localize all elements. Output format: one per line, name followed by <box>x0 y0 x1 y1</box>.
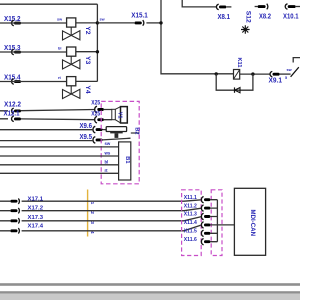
title block band <box>0 294 300 300</box>
wire B2 stub <box>131 132 139 134</box>
wire X15.4 row <box>0 80 97 82</box>
connector X17.4 <box>10 224 44 234</box>
title block line 2 <box>0 291 300 294</box>
connector X15.4 <box>4 75 21 85</box>
relay coil K11 <box>234 58 242 80</box>
diode V1 <box>235 87 241 92</box>
svg-text:X10.1: X10.1 <box>283 14 299 21</box>
wire X15.2 row <box>0 22 97 24</box>
box MDI-CAN <box>234 188 265 255</box>
svg-text:sw: sw <box>287 68 292 72</box>
connector X11.6 <box>184 237 211 245</box>
connector X9.6 <box>80 123 103 133</box>
connector X9.1 <box>269 71 283 84</box>
wire X9.6 <box>0 129 107 131</box>
connector X12.2 <box>4 101 21 113</box>
connector X25 upper <box>91 100 104 113</box>
svg-text:Y2: Y2 <box>84 26 91 35</box>
wire B1 ws <box>0 155 119 157</box>
svg-text:sw: sw <box>57 18 62 22</box>
dashed bracket X11 right <box>211 190 222 256</box>
svg-text:X11.1: X11.1 <box>184 195 197 201</box>
wire X12.1 to X25 <box>0 118 95 121</box>
dashed bracket X11 left <box>182 190 202 256</box>
connector X17.1 <box>10 196 43 204</box>
connector X11.3 <box>184 212 211 220</box>
junction dot <box>96 21 99 24</box>
svg-text:X8.1: X8.1 <box>218 14 231 21</box>
wire X11 bus <box>210 200 217 242</box>
svg-text:B1: B1 <box>124 156 130 163</box>
svg-text:bl: bl <box>105 159 109 164</box>
svg-text:Y1: Y1 <box>116 112 122 119</box>
wire 3 <box>0 217 201 221</box>
junction dot <box>251 72 254 75</box>
wire top right L <box>182 0 216 7</box>
svg-text:rt: rt <box>58 76 61 80</box>
connector X15.2 <box>4 16 21 26</box>
connector X11.1 <box>184 195 211 203</box>
connector X11.5 <box>184 229 211 237</box>
wire long vertical <box>161 0 216 74</box>
svg-text:X11.5: X11.5 <box>184 229 197 235</box>
connector X8.1 <box>216 4 231 21</box>
svg-text:X11.3: X11.3 <box>184 212 197 218</box>
svg-text:rt: rt <box>105 168 109 173</box>
svg-text:X11.2: X11.2 <box>184 203 197 209</box>
wire diode branch <box>216 74 253 90</box>
valve Y4 <box>63 77 91 99</box>
svg-text:5: 5 <box>285 76 287 80</box>
svg-text:3: 3 <box>89 221 95 224</box>
svg-text:MDI-CAN: MDI-CAN <box>249 210 255 236</box>
svg-text:ws: ws <box>104 150 111 155</box>
connector X9.5 <box>80 134 103 143</box>
wire K11 row <box>216 73 270 75</box>
svg-text:X11.6: X11.6 <box>184 237 197 243</box>
wire X15.3 row <box>0 51 97 53</box>
valve Y2 <box>63 18 91 40</box>
dashed box B2 <box>101 101 139 183</box>
connector X17.3 <box>10 215 43 224</box>
wire B1 bl <box>0 164 119 166</box>
connector X11.2 <box>184 203 211 211</box>
wire 1 <box>0 200 201 201</box>
lamp S12 <box>241 11 251 34</box>
connector X12.1 <box>4 111 22 122</box>
svg-text:X12.1: X12.1 <box>4 111 20 118</box>
svg-text:Y3: Y3 <box>84 56 91 65</box>
svg-text:X11.4: X11.4 <box>184 220 198 226</box>
wire 4 <box>0 225 201 231</box>
box B1 <box>119 142 131 180</box>
svg-text:X8.2: X8.2 <box>259 14 271 21</box>
wire X9.5 <box>0 138 131 140</box>
svg-text:S12: S12 <box>244 11 251 23</box>
svg-text:X9.1: X9.1 <box>269 78 283 85</box>
switch S at edge <box>285 58 300 80</box>
svg-text:X9.5: X9.5 <box>80 134 93 141</box>
valve Y3 <box>63 47 91 69</box>
svg-text:X17.4: X17.4 <box>28 224 44 230</box>
svg-text:1: 1 <box>89 202 95 205</box>
svg-text:B2: B2 <box>133 127 139 134</box>
svg-text:X15.1: X15.1 <box>131 12 148 19</box>
connector X11.4 <box>184 220 211 228</box>
svg-text:X12.2: X12.2 <box>4 101 21 108</box>
wire 2 <box>0 208 201 211</box>
svg-text:Y4: Y4 <box>84 85 91 94</box>
cable marker yellow <box>87 190 89 237</box>
connector X8.2 <box>255 4 271 21</box>
svg-text:sw: sw <box>100 18 105 22</box>
svg-text:K11: K11 <box>236 58 242 68</box>
svg-text:X25: X25 <box>91 100 100 107</box>
wire to X15.1 <box>97 22 134 24</box>
horn B2 symbol <box>106 127 126 138</box>
wire X25 to speaker <box>104 110 112 120</box>
wire X15.1 to vertical <box>146 22 161 24</box>
wire B1 rt <box>0 172 119 174</box>
wire to switch <box>280 73 291 75</box>
loudspeaker Y1 <box>112 107 128 123</box>
wire to MDI-CAN <box>217 224 234 226</box>
junction dot <box>159 21 162 24</box>
connector X10.1 <box>283 4 300 21</box>
connector X15.3 <box>4 45 21 55</box>
junction dot <box>96 50 99 53</box>
wire B1 sw <box>0 146 119 148</box>
title block line 1 <box>0 283 300 286</box>
svg-text:2: 2 <box>89 211 95 214</box>
wire valve bus <box>96 4 98 81</box>
connector X25 lower <box>91 110 104 123</box>
svg-text:bl: bl <box>58 47 61 51</box>
junction dot <box>215 72 218 75</box>
svg-text:X17.3: X17.3 <box>28 215 44 221</box>
svg-text:sw: sw <box>105 141 111 146</box>
connector X17.2 <box>10 206 43 214</box>
wire X12.2 to X25 <box>0 110 95 111</box>
connector X15.1 <box>131 12 148 25</box>
wire top rail <box>0 3 97 5</box>
